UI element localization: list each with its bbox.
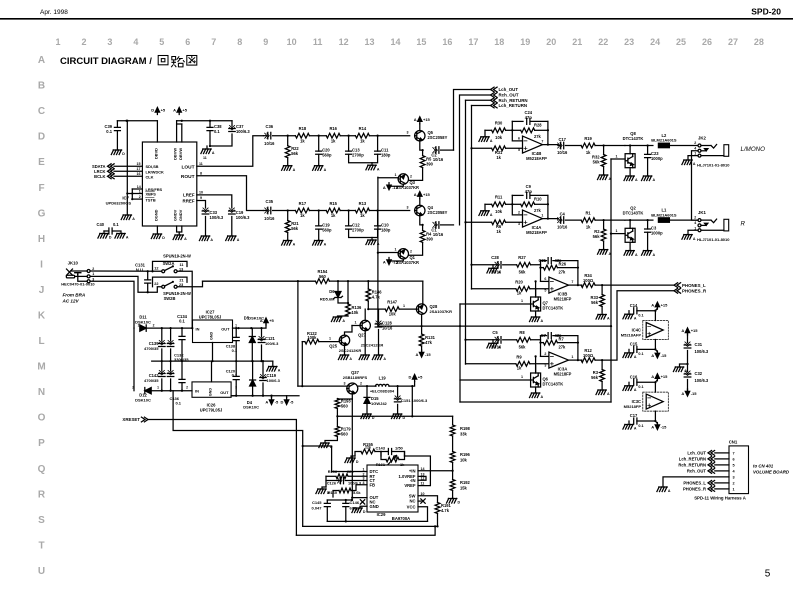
wire Q27 base: [352, 325, 360, 327]
svg-text:1k: 1k: [517, 366, 522, 371]
junction: [345, 520, 347, 522]
svg-text:1GWJ42: 1GWJ42: [371, 401, 388, 406]
svg-text:0.1: 0.1: [214, 129, 220, 134]
junction: [125, 120, 127, 122]
wire R179 bottom: [325, 437, 337, 444]
svg-text:2SC2058Y: 2SC2058Y: [428, 135, 448, 140]
wire C138 bot: [235, 341, 237, 362]
transistor Q3: [398, 174, 408, 184]
wire C120 top: [235, 361, 237, 376]
svg-text:B: B: [38, 81, 45, 92]
wire C39 top: [116, 121, 118, 128]
svg-text:J: J: [39, 285, 45, 296]
svg-text:A: A: [126, 236, 129, 240]
ground at C40 left: [100, 233, 108, 235]
resistor R8: [517, 337, 531, 342]
svg-text:BA9700A: BA9700A: [392, 516, 410, 521]
ground at Q25: [340, 354, 348, 356]
ground at DGND: [153, 233, 161, 235]
svg-text:1000p: 1000p: [651, 231, 663, 236]
svg-text:-IN: -IN: [410, 478, 416, 483]
junction: [318, 209, 320, 211]
junction: [577, 359, 579, 361]
transistor Q5: [415, 131, 425, 141]
resistor R33: [600, 295, 605, 307]
svg-text:A: A: [651, 302, 654, 307]
ground at C5: [489, 342, 497, 344]
svg-text:A: A: [607, 392, 610, 396]
svg-text:1: 1: [395, 173, 397, 177]
wire C20 gnd: [318, 154, 320, 165]
svg-text:100/6.3: 100/6.3: [210, 215, 224, 220]
svg-text:10k: 10k: [495, 209, 503, 214]
svg-text:DTC143TK: DTC143TK: [543, 382, 564, 387]
capacitor C126: [341, 477, 344, 484]
wire BCLK to IC7: [114, 175, 142, 177]
junction: [347, 280, 349, 282]
junction: [169, 390, 171, 392]
resistor R179: [335, 427, 340, 437]
wire SW2B out: [177, 281, 315, 287]
wire R33 gnd: [601, 307, 603, 315]
junction: [161, 327, 163, 329]
svg-text:D: D: [457, 501, 460, 505]
wire C3 gnd: [647, 232, 649, 250]
wire VCC pin: [418, 507, 428, 522]
svg-text:R10: R10: [534, 196, 542, 201]
connector chevron Lch_OUT at CN1: [708, 451, 715, 456]
wire Q27 emitter: [364, 331, 366, 355]
wire C145 top: [326, 500, 328, 503]
svg-text:M5218FP: M5218FP: [554, 297, 572, 302]
svg-text:7: 7: [211, 37, 216, 47]
wire LREF: [197, 195, 232, 208]
jack JK1 frame: [724, 219, 729, 231]
svg-text:DBVW: DBVW: [178, 148, 183, 160]
svg-text:7: 7: [541, 140, 543, 144]
svg-text:HLJ7101-01-8010: HLJ7101-01-8010: [697, 237, 730, 242]
svg-text:100/6.3: 100/6.3: [267, 378, 281, 383]
wire Q8 top: [629, 146, 631, 154]
wire raw plus riser: [297, 281, 299, 386]
junction: [436, 525, 438, 527]
resistor R15: [326, 208, 340, 213]
svg-text:A: A: [651, 374, 654, 379]
wire C19 gnd: [318, 229, 320, 240]
wire C17 to supply: [637, 411, 656, 421]
svg-text:1/50: 1/50: [395, 446, 404, 451]
ground at R136: [333, 316, 341, 318]
svg-text:R192: R192: [460, 480, 471, 485]
svg-text:BLM21A601S: BLM21A601S: [651, 212, 677, 217]
wire R11 left: [485, 203, 492, 205]
capacitor C20: [316, 151, 322, 154]
junction: [181, 120, 183, 122]
svg-text:7: 7: [571, 280, 573, 284]
svg-text:12: 12: [154, 267, 158, 271]
junction: [459, 325, 461, 327]
switch SW2B pole: [162, 285, 165, 288]
junction: [287, 135, 289, 137]
junction: [318, 135, 320, 137]
svg-text:10/16: 10/16: [382, 326, 393, 331]
svg-text:C16: C16: [630, 375, 638, 380]
junction: [235, 395, 237, 397]
wire D12 to IC26: [151, 390, 192, 392]
ground at JK2: [684, 159, 692, 161]
IC IC26 box: [192, 382, 231, 397]
svg-text:10/16: 10/16: [433, 232, 444, 237]
svg-text:R198: R198: [460, 426, 471, 431]
wire C28 gnd lead: [492, 265, 494, 269]
svg-text:100/6.3: 100/6.3: [236, 215, 250, 220]
svg-text:PHONES_R: PHONES_R: [682, 289, 707, 294]
svg-text:DSK10C: DSK10C: [248, 315, 264, 320]
wire IC4B fb top: [512, 120, 523, 122]
wire CN1 pin3 gnd: [663, 477, 729, 487]
wire rail a: [273, 135, 296, 137]
svg-text:2: 2: [518, 211, 520, 215]
wire mute riser left: [377, 177, 379, 326]
svg-text:0.1: 0.1: [638, 352, 643, 356]
svg-text:1: 1: [395, 248, 397, 252]
svg-text:N.U.: N.U.: [136, 267, 144, 272]
wire C10 gnd lead: [371, 238, 373, 241]
wire Q6 emitter: [535, 387, 537, 393]
svg-text:22: 22: [598, 37, 608, 47]
svg-text:R18: R18: [299, 126, 307, 131]
capacitor C23: [645, 154, 651, 157]
ground at R21: [284, 240, 292, 242]
svg-text:D: D: [38, 132, 45, 143]
svg-text:1k: 1k: [360, 213, 365, 218]
capacitor C11: [375, 151, 381, 154]
capacitor C119: [260, 378, 266, 381]
wire NC right stub: [418, 500, 421, 502]
svg-text:8: 8: [237, 37, 242, 47]
wire JK10 pin2 b: [90, 270, 162, 272]
svg-text:GNDV: GNDV: [178, 209, 183, 221]
svg-text:0.1: 0.1: [638, 385, 643, 389]
resistor R14: [355, 133, 369, 138]
wire rail a: [273, 210, 296, 212]
wire SW pin: [418, 496, 438, 503]
resistor R18: [295, 133, 309, 138]
svg-text:2: 2: [410, 175, 412, 179]
wire Q6 top: [535, 366, 537, 374]
wire FB pin: [351, 485, 367, 491]
wire C139 bot: [161, 349, 163, 361]
wire +IN pin: [418, 470, 453, 472]
connector chevron Rch_RETURN at CN1: [708, 463, 715, 468]
junction: [511, 203, 513, 205]
capacitor C24: [527, 118, 530, 124]
ground at C33: [201, 235, 209, 237]
svg-text:+15: +15: [661, 302, 669, 307]
wire C120 bot: [231, 380, 236, 396]
wire A+15 lead IC3C: [655, 380, 657, 383]
svg-text:OUT: OUT: [220, 390, 229, 395]
connector chevron Lch_RETURN: [491, 103, 498, 108]
transistor Q8: [625, 154, 635, 168]
ground at IC29: [354, 507, 362, 509]
svg-text:A: A: [651, 425, 654, 430]
connector chevron Rch_RETURN: [491, 98, 498, 103]
svg-text:27k: 27k: [559, 344, 567, 349]
wire C2 out: [441, 149, 454, 151]
wire SDATA to IC7: [114, 165, 142, 167]
wire IC27 out: [233, 323, 267, 328]
ground at GNDV: [175, 234, 183, 236]
wire IC4A fb top2: [531, 194, 548, 196]
wire R30 gnd: [484, 130, 486, 137]
svg-text:2700p: 2700p: [352, 228, 364, 233]
X no-connect right NC: [421, 499, 425, 503]
svg-text:CLK: CLK: [146, 174, 154, 179]
svg-text:4700/35: 4700/35: [144, 346, 159, 351]
wire R161 r: [399, 452, 405, 460]
svg-text:1: 1: [355, 321, 357, 325]
op-amp IC4B: [523, 136, 543, 153]
power A+5 at IC7: [177, 108, 181, 113]
ground at Q27: [361, 354, 369, 356]
junction: [262, 360, 264, 362]
wire Q5 emitter: [420, 141, 423, 150]
wire R122 in: [302, 341, 305, 343]
svg-text:7: 7: [732, 451, 734, 455]
wire C19 top: [318, 211, 320, 226]
junction: [301, 385, 303, 387]
resistor R4: [420, 230, 425, 242]
svg-text:0.1: 0.1: [106, 129, 112, 134]
svg-text:22k: 22k: [347, 469, 354, 474]
capacitor C37: [229, 129, 235, 132]
wire Q3 emitter: [389, 184, 403, 186]
wire bottom bus 1: [327, 520, 427, 522]
resistor R17: [295, 208, 309, 213]
svg-text:2SA1037KR: 2SA1037KR: [430, 309, 453, 314]
svg-text:24: 24: [650, 37, 660, 47]
op-amp IC3C: [646, 394, 663, 409]
connector chevron Rch_OUT at CN1: [708, 469, 715, 474]
capacitor C146: [343, 503, 349, 506]
svg-text:13: 13: [364, 37, 374, 47]
resistor R13: [355, 208, 369, 213]
wire IC26 out: [231, 395, 299, 397]
junction: [235, 327, 237, 329]
junction: [251, 360, 253, 362]
svg-text:L: L: [38, 336, 44, 347]
wire 13-12 tie: [418, 476, 426, 480]
wire D+5 to divider: [411, 386, 413, 416]
svg-text:C4: C4: [560, 212, 566, 217]
wire R11 gnd: [484, 204, 486, 211]
ground at RC: [318, 488, 326, 490]
capacitor C132: [167, 344, 174, 347]
resistor R156: [336, 474, 348, 479]
wire Q8 emitter: [629, 168, 631, 176]
junction: [347, 135, 349, 137]
svg-text:A: A: [132, 217, 135, 221]
op-amp IC3C dashed box: [643, 392, 669, 411]
svg-text:SPD-20: SPD-20: [751, 7, 781, 17]
junction: [610, 232, 612, 234]
wire mute bottom: [460, 401, 611, 403]
diode D4: [250, 380, 256, 386]
svg-text:A: A: [324, 243, 327, 247]
wire C14 gnd lead: [628, 311, 630, 315]
svg-text:2700p: 2700p: [352, 153, 364, 158]
connector chevron SDATA: [108, 164, 115, 169]
svg-text:R: R: [741, 221, 746, 228]
svg-text:2SC2058Y: 2SC2058Y: [428, 210, 448, 215]
wire IC4A rf r: [535, 203, 548, 205]
svg-text:TSTB: TSTB: [146, 197, 156, 202]
wire C119 bot: [262, 383, 264, 396]
junction: [411, 385, 413, 387]
resistor R146: [366, 289, 371, 301]
svg-text:4.7k: 4.7k: [441, 508, 450, 513]
wire R2 gnd: [603, 241, 605, 250]
junction: [367, 308, 369, 310]
svg-text:2: 2: [544, 352, 546, 356]
svg-text:R28: R28: [534, 122, 542, 127]
capacitor C33: [202, 211, 209, 214]
ground at C16: [625, 385, 633, 387]
wire A-15 lead IC3C: [655, 421, 657, 424]
resistor R5: [420, 156, 425, 168]
wire Q7 base: [460, 303, 531, 305]
capacitor C1: [436, 222, 439, 229]
wire IC4A out jog: [557, 219, 559, 221]
capacitor C7: [548, 333, 551, 339]
capacitor C21: [548, 258, 551, 264]
wire LRCK to IC7: [114, 170, 142, 172]
svg-text:1: 1: [138, 324, 140, 328]
svg-text:C15: C15: [630, 342, 638, 347]
wire IC3B out: [569, 284, 582, 286]
wire CT pin: [345, 480, 367, 482]
resistor R1: [581, 218, 595, 223]
svg-text:6: 6: [732, 457, 734, 461]
svg-text:1: 1: [157, 386, 159, 390]
wire C16 to supply: [637, 382, 656, 392]
wire C11 top: [377, 136, 379, 151]
wire rail c: [340, 210, 355, 212]
capacitor C32: [684, 374, 691, 377]
svg-text:C31: C31: [695, 342, 703, 347]
resistor R34: [581, 283, 595, 288]
wire OUT pin: [352, 498, 367, 500]
svg-text:DSK10C: DSK10C: [135, 398, 151, 403]
junction: [147, 270, 149, 272]
resistor R192: [450, 480, 455, 491]
svg-text:33k: 33k: [460, 432, 468, 437]
svg-text:R19: R19: [584, 136, 592, 141]
resistor R155: [361, 449, 375, 454]
svg-text:A: A: [293, 168, 296, 172]
wire D5 bot: [251, 343, 253, 362]
svg-text:GND: GND: [370, 504, 379, 509]
junction: [686, 363, 688, 365]
power D-5 arrow: [284, 400, 288, 405]
svg-text:GND: GND: [209, 388, 213, 397]
junction: [251, 395, 253, 397]
svg-text:D: D: [109, 236, 112, 240]
junction: [211, 360, 213, 362]
svg-text:0.047: 0.047: [311, 506, 322, 511]
junction: [209, 120, 211, 122]
ground at C14: [625, 313, 633, 315]
svg-text:R26: R26: [559, 261, 567, 266]
svg-text:18: 18: [494, 37, 504, 47]
junction: [126, 192, 128, 194]
junction: [646, 219, 648, 221]
wire pins tie to gnd: [127, 194, 132, 216]
wire C126 left: [326, 480, 339, 482]
svg-text:3: 3: [407, 206, 409, 210]
wire Q1 base: [378, 252, 398, 254]
wire A-15 lead IC4C: [655, 349, 657, 352]
svg-text:RREF: RREF: [183, 198, 195, 203]
jack JK1 tip contact: [701, 219, 717, 223]
svg-text:C17: C17: [558, 137, 566, 142]
resistor R12: [581, 358, 595, 363]
svg-text:0.1: 0.1: [232, 348, 238, 353]
wire C134 bot: [181, 340, 183, 362]
capacitor C138: [233, 337, 239, 340]
junction: [151, 270, 153, 272]
wire rail d: [369, 135, 409, 137]
svg-text:DTC143TK: DTC143TK: [543, 306, 564, 311]
wire R136 bottom: [338, 316, 349, 317]
junction: [470, 147, 472, 149]
ground at R192: [448, 498, 456, 500]
wire analog 5V rail: [177, 120, 232, 122]
svg-text:C14: C14: [630, 303, 638, 308]
capacitor C2: [436, 147, 439, 154]
connector chevron PHONES_L: [674, 283, 681, 288]
transistor Q27: [360, 320, 370, 330]
wire C23 top: [647, 146, 649, 155]
svg-text:56k: 56k: [593, 160, 601, 165]
svg-text:0.1: 0.1: [232, 373, 238, 378]
ground at center rail: [269, 366, 277, 368]
ground at R33: [598, 314, 606, 316]
svg-text:21: 21: [572, 37, 582, 47]
wire A-5 lead: [271, 396, 273, 398]
junction: [654, 348, 656, 350]
svg-text:Lch_RETURN: Lch_RETURN: [499, 103, 528, 108]
svg-text:RD5.6M: RD5.6M: [320, 297, 335, 302]
capacitor C3: [645, 229, 651, 232]
ground at Q7: [531, 316, 539, 318]
svg-text:From BRA: From BRA: [63, 292, 86, 297]
wire rail b: [309, 135, 326, 137]
wire Q28 collector: [421, 314, 423, 326]
svg-text:A: A: [681, 391, 684, 396]
svg-text:M5218FP: M5218FP: [624, 404, 642, 409]
jack JK10 contacts: [87, 270, 90, 273]
svg-text:M5218AFP: M5218AFP: [526, 230, 547, 235]
junction: [377, 252, 379, 254]
ground at Q2: [626, 250, 634, 252]
junction: [654, 420, 656, 422]
svg-text:2: 2: [139, 195, 141, 199]
wire Q37 rail in: [298, 385, 347, 387]
capacitor C5: [498, 337, 501, 344]
capacitor C36: [268, 132, 271, 139]
